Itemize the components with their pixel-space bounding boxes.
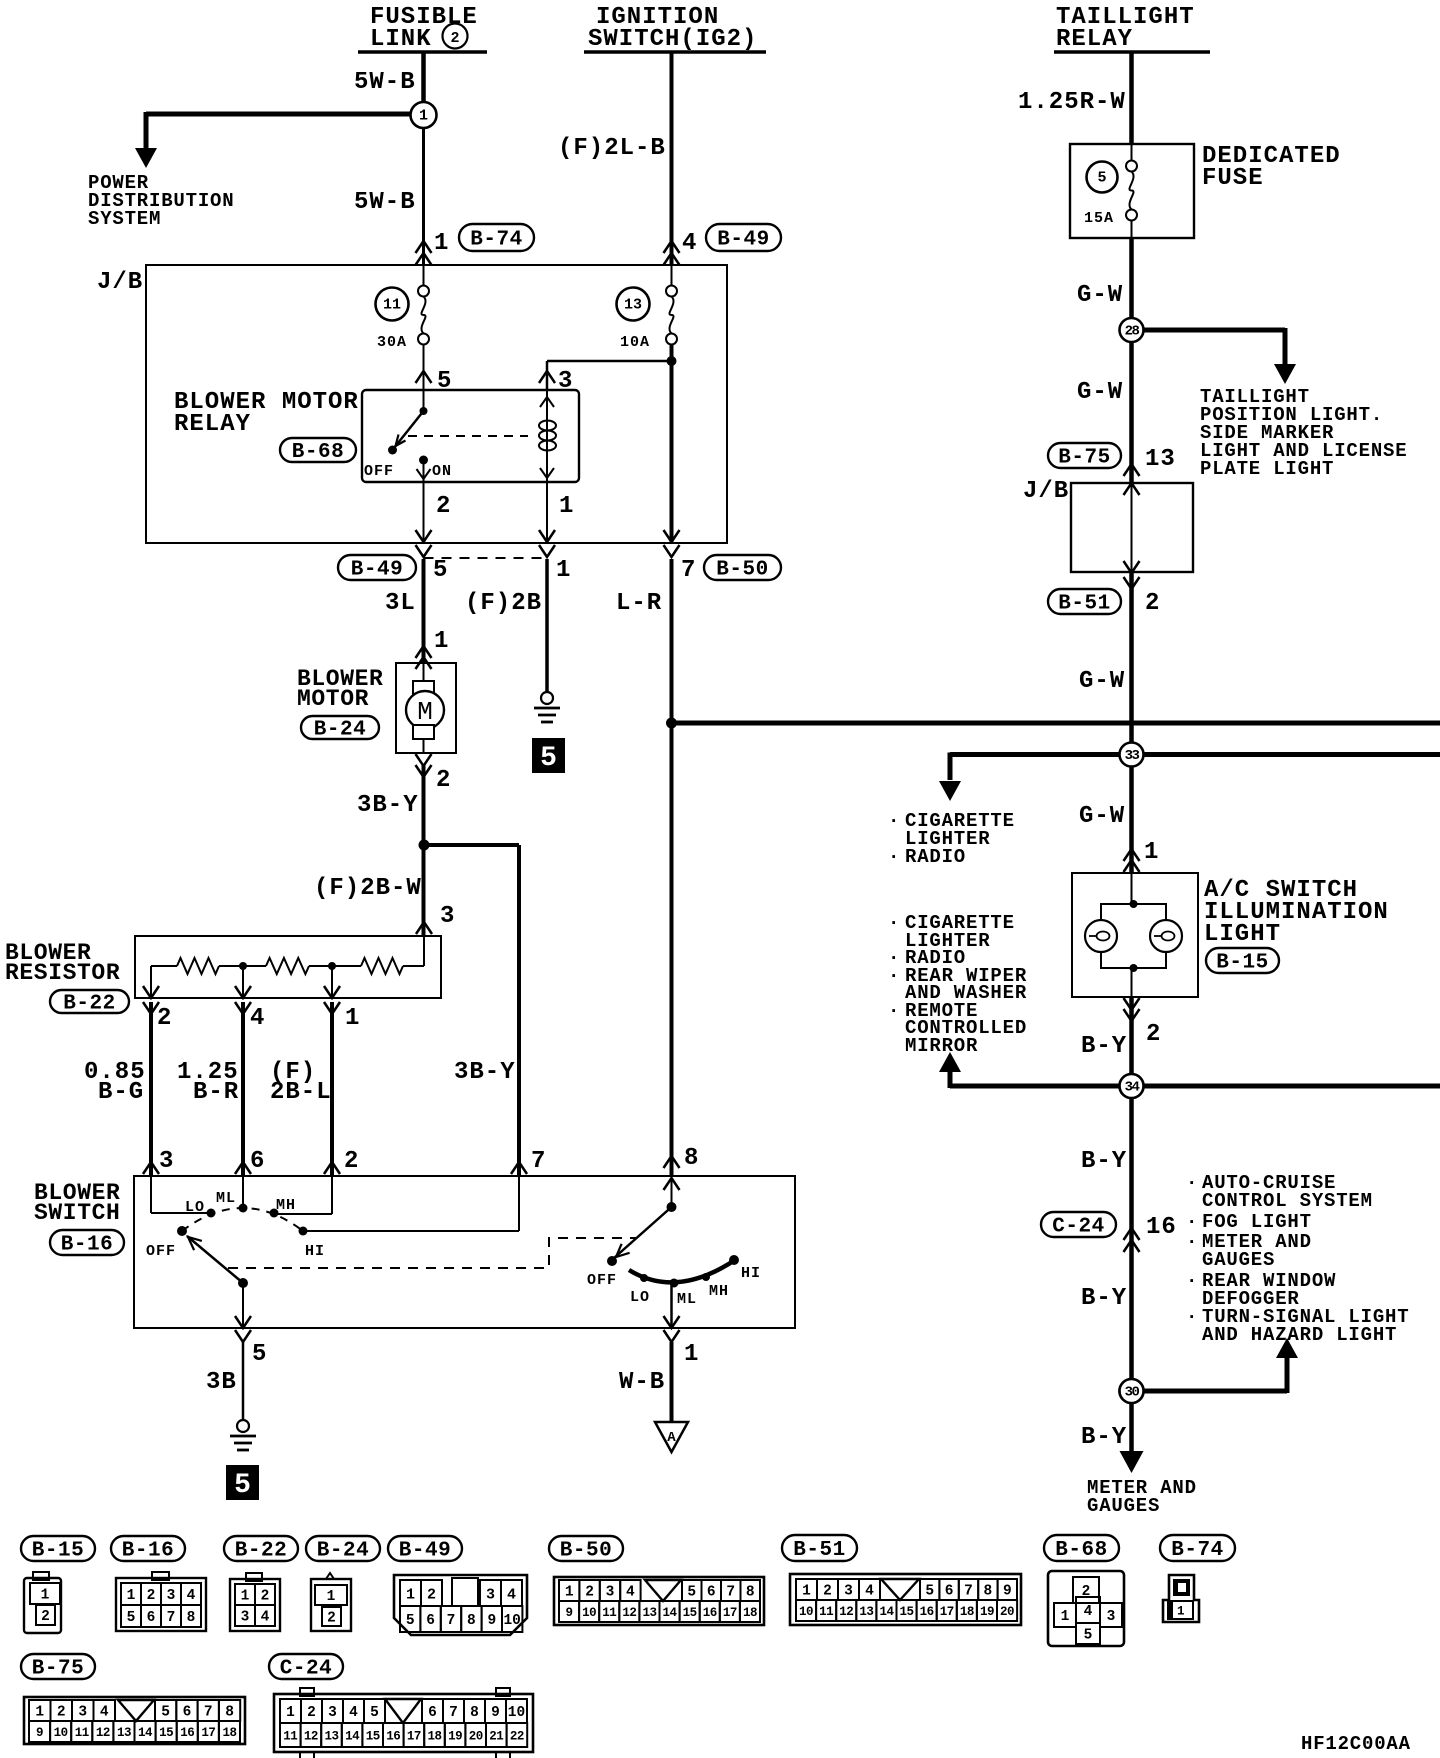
fuse id circle 5 (1087, 162, 1118, 193)
svg-text:B-22: B-22 (235, 1540, 287, 1563)
svg-text:·: · (888, 965, 900, 987)
J/B box outline (146, 265, 727, 543)
svg-text:12: 12 (96, 1726, 110, 1740)
svg-text:3: 3 (1107, 1609, 1116, 1625)
resistor element 3 (361, 958, 403, 974)
relay pin 1 wire (coil) to J/B bottom (546, 482, 548, 543)
svg-text:3: 3 (844, 1584, 853, 1600)
svg-text:W-B: W-B (619, 1369, 665, 1396)
svg-text:3: 3 (78, 1705, 87, 1721)
svg-text:11: 11 (383, 297, 401, 314)
svg-text:B-16: B-16 (122, 1540, 174, 1563)
rail segment (332, 965, 361, 967)
svg-text:17: 17 (723, 1606, 737, 1620)
svg-text:4: 4 (250, 1005, 265, 1032)
wire B-Y from node 34 down to node 30 (1129, 1086, 1134, 1391)
connector bubble B-15 (1206, 948, 1279, 973)
bulb right (1150, 920, 1182, 952)
svg-text:M: M (417, 697, 433, 727)
svg-text:RADIO: RADIO (905, 846, 966, 868)
svg-text:19: 19 (448, 1730, 462, 1744)
svg-text:13: 13 (624, 297, 642, 314)
svg-text:B-51: B-51 (793, 1539, 845, 1562)
svg-text:B-G: B-G (98, 1079, 144, 1106)
wire L-R down to blower switch (670, 559, 674, 1176)
rail segment (243, 965, 266, 967)
svg-text:13: 13 (324, 1730, 338, 1744)
pin entry chevrons (143, 1162, 159, 1174)
svg-text:1: 1 (406, 1586, 415, 1603)
mechanical link dashed line (228, 1238, 637, 1268)
svg-text:11: 11 (602, 1606, 616, 1620)
svg-text:2: 2 (823, 1584, 832, 1600)
svg-text:4: 4 (682, 230, 697, 257)
svg-text:AND HAZARD LIGHT: AND HAZARD LIGHT (1202, 1324, 1397, 1346)
svg-text:MOTOR: MOTOR (297, 686, 369, 712)
wire 1.25B-R down to switch (241, 1002, 245, 1176)
switch exit chevrons (235, 1316, 251, 1328)
svg-text:17: 17 (201, 1726, 215, 1740)
svg-text:2: 2 (436, 767, 451, 794)
connector chevrons B-74 pin 1 (416, 241, 432, 253)
svg-text:HI: HI (741, 1265, 761, 1282)
svg-text:1: 1 (1144, 839, 1159, 866)
connector bubble B-16 (50, 1230, 124, 1255)
svg-text:ML: ML (677, 1291, 697, 1308)
resistor element 1 (177, 958, 219, 974)
svg-text:7: 7 (726, 1585, 735, 1601)
connector bubble B-49 (top) (706, 224, 781, 251)
svg-text:4: 4 (261, 1610, 270, 1626)
svg-text:RELAY: RELAY (174, 411, 251, 438)
svg-text:B-Y: B-Y (1081, 1033, 1127, 1060)
svg-text:B-50: B-50 (560, 1540, 612, 1563)
svg-text:B-Y: B-Y (1081, 1148, 1127, 1175)
svg-text:10: 10 (582, 1606, 596, 1620)
svg-text:2B-L: 2B-L (270, 1079, 332, 1106)
svg-text:30A: 30A (377, 334, 407, 351)
HI contact dot (299, 1227, 308, 1236)
svg-text:5: 5 (370, 1705, 379, 1721)
ground point A triangle (655, 1422, 688, 1452)
connector bubble B-16 (bottom row) (111, 1536, 185, 1561)
svg-text:5: 5 (925, 1584, 934, 1600)
connector B-51 pinout (790, 1574, 1021, 1625)
svg-text:1: 1 (684, 1341, 699, 1368)
svg-text:1: 1 (556, 557, 571, 584)
svg-text:3: 3 (606, 1585, 615, 1601)
bus wire through node 33 (950, 752, 1440, 757)
connector B-74 pinout (1163, 1575, 1199, 1622)
svg-text:7: 7 (531, 1148, 546, 1175)
svg-text:B-68: B-68 (292, 441, 344, 464)
svg-text:(F)2B-W: (F)2B-W (314, 875, 422, 902)
svg-text:·: · (1186, 1172, 1198, 1194)
svg-text:9: 9 (1003, 1584, 1012, 1600)
chassis ground symbol (left) (237, 1420, 249, 1432)
svg-text:9: 9 (36, 1726, 43, 1740)
terminal bar under IGNITION SWITCH (584, 50, 766, 54)
svg-text:2: 2 (57, 1705, 66, 1721)
arrowhead taillight branch (1274, 364, 1296, 384)
svg-text:B-50: B-50 (716, 559, 768, 582)
svg-text:9: 9 (491, 1705, 500, 1721)
svg-text:22: 22 (510, 1730, 524, 1744)
svg-text:SYSTEM: SYSTEM (88, 208, 161, 230)
inner lamp rect (1131, 873, 1133, 904)
svg-text:14: 14 (138, 1726, 153, 1740)
svg-text:3: 3 (440, 903, 455, 930)
connector chevron B-51 (1124, 577, 1140, 589)
svg-text:OFF: OFF (587, 1272, 617, 1289)
svg-text:B-15: B-15 (32, 1540, 84, 1563)
resistor input drop from pin 3 (423, 936, 425, 966)
svg-text:17: 17 (407, 1730, 421, 1744)
svg-text:B-75: B-75 (32, 1658, 84, 1681)
junction block J/B (right) box (1071, 483, 1193, 572)
svg-text:1: 1 (559, 493, 574, 520)
svg-text:·: · (1186, 1231, 1198, 1253)
ground ref black box 5 (middle) (533, 739, 564, 772)
svg-text:G-W: G-W (1079, 668, 1125, 695)
connector bubble B-68 (bottom row) (1044, 1535, 1119, 1561)
left switch arm from pivot to OFF (238, 1278, 248, 1288)
fuse 13 id circle (617, 288, 650, 321)
svg-text:18: 18 (222, 1726, 236, 1740)
svg-text:2: 2 (261, 1589, 270, 1605)
resistor element 2 (266, 958, 309, 974)
relay coil pin 3 chevron and label (539, 371, 555, 383)
svg-text:A: A (667, 1430, 676, 1446)
svg-text:1: 1 (35, 1705, 44, 1721)
svg-text:5: 5 (540, 743, 557, 774)
dedicated fuse symbol (1131, 144, 1133, 161)
connector B-75 pinout (24, 1697, 245, 1744)
dedicated fuse box (1070, 144, 1194, 238)
svg-text:1: 1 (1177, 1605, 1184, 1619)
svg-text:7: 7 (681, 557, 696, 584)
svg-text:LO: LO (630, 1289, 650, 1306)
A/C light box outline (1072, 873, 1198, 997)
svg-text:2: 2 (147, 1588, 156, 1604)
svg-text:HI: HI (305, 1243, 325, 1260)
svg-text:3: 3 (328, 1705, 337, 1721)
connector bubble B-75 (1048, 443, 1121, 468)
switch wiring pin 7 to HI contact (518, 1176, 520, 1231)
svg-text:2: 2 (450, 30, 459, 47)
ML contact dot (239, 1204, 248, 1213)
fuse 11 id circle (376, 288, 409, 321)
svg-text:1.25R-W: 1.25R-W (1018, 89, 1126, 116)
resistor box outline (135, 936, 441, 998)
relay common contact dot (420, 407, 428, 415)
connector chevrons C-24 (1124, 1228, 1140, 1240)
motor terminal top (423, 663, 425, 683)
arrowhead to meter and gauges (1120, 1451, 1144, 1473)
svg-text:B-49: B-49 (399, 1540, 451, 1563)
svg-text:6: 6 (945, 1584, 954, 1600)
motor exit chevrons and pin 2 (416, 754, 432, 766)
svg-text:6: 6 (707, 1585, 716, 1601)
svg-text:5: 5 (1097, 170, 1106, 187)
svg-text:LINK: LINK (370, 26, 432, 53)
svg-text:8: 8 (470, 1705, 479, 1721)
connector bubble B-74 (459, 224, 534, 251)
svg-text:3: 3 (241, 1610, 250, 1626)
svg-text:10A: 10A (620, 334, 650, 351)
svg-text:13: 13 (642, 1606, 656, 1620)
wire W-B to ground point A (670, 1342, 674, 1422)
svg-text:12: 12 (622, 1606, 636, 1620)
svg-text:3B: 3B (206, 1369, 237, 1396)
svg-text:3L: 3L (385, 590, 416, 617)
connector chevron B-75 (1124, 464, 1140, 476)
svg-text:15: 15 (900, 1605, 914, 1619)
svg-text:4: 4 (1084, 1604, 1093, 1620)
relay movable arm (shown OFF) (394, 411, 424, 448)
fuse 11 symbol (423, 265, 425, 286)
svg-text:7: 7 (204, 1705, 213, 1721)
LO contact dot (207, 1209, 216, 1218)
svg-text:7: 7 (447, 1613, 456, 1629)
svg-text:B-15: B-15 (1216, 952, 1268, 975)
svg-text:28: 28 (1125, 324, 1140, 340)
connector bubble B-74 (bottom row) (1160, 1535, 1235, 1561)
connector chevrons B-49 pin 4 (664, 241, 680, 253)
svg-text:6: 6 (250, 1148, 265, 1175)
svg-text:·: · (888, 912, 900, 934)
svg-text:5W-B: 5W-B (354, 69, 416, 96)
svg-text:B-74: B-74 (1171, 1539, 1223, 1562)
wire (F)2L-B from ignition switch down to J/B (670, 52, 674, 264)
connector bubble B-15 (bottom row) (21, 1536, 95, 1561)
svg-text:B-49: B-49 (351, 559, 403, 582)
svg-text:5: 5 (406, 1613, 415, 1629)
svg-text:B-68: B-68 (1055, 1539, 1107, 1562)
relay pin 5 chevron and label (416, 371, 432, 383)
svg-text:4: 4 (187, 1588, 196, 1604)
left switch dashed wiper arc (182, 1208, 303, 1231)
bulb left (1085, 920, 1117, 952)
wire 1.25R-W down to dedicated fuse (1129, 52, 1134, 144)
svg-text:ON: ON (432, 463, 452, 480)
svg-text:MH: MH (276, 1197, 296, 1214)
svg-text:19: 19 (980, 1605, 994, 1619)
connector bubble B-24 (bottom row) (306, 1536, 380, 1561)
wire 3B to ground (242, 1342, 245, 1419)
splice dot 3B-Y (419, 840, 430, 851)
svg-text:J/B: J/B (97, 269, 143, 296)
svg-text:2: 2 (427, 1586, 436, 1603)
left switch output wire to pin 5 (242, 1283, 244, 1328)
node 34 splice circle (1120, 1074, 1144, 1098)
svg-text:1: 1 (241, 1589, 250, 1605)
svg-text:B-Y: B-Y (1081, 1285, 1127, 1312)
svg-text:10: 10 (503, 1613, 520, 1629)
svg-text:1: 1 (434, 628, 449, 655)
svg-text:3: 3 (159, 1148, 174, 1175)
wire branch to power distribution system (146, 112, 412, 117)
svg-text:7: 7 (167, 1610, 176, 1626)
svg-text:33: 33 (1125, 748, 1140, 764)
svg-text:7: 7 (964, 1584, 973, 1600)
svg-text:2: 2 (1145, 590, 1160, 617)
relay: wire from pin 5 to common contact (423, 390, 425, 411)
wire from fuse 11 to blower motor relay pin 5 (423, 345, 425, 391)
svg-text:5: 5 (127, 1610, 136, 1626)
junction dot on L-R wire (666, 718, 677, 729)
svg-text:10: 10 (508, 1705, 525, 1721)
svg-text:B-49: B-49 (717, 229, 769, 252)
bus wire from L-R junction to right edge (672, 721, 1440, 726)
svg-text:3B-Y: 3B-Y (357, 792, 419, 819)
svg-text:B-75: B-75 (1058, 447, 1110, 470)
svg-text:C-24: C-24 (280, 1658, 332, 1681)
node 34 splice circle overdraw (1120, 1074, 1144, 1098)
wire G-W from fuse to node 28 (1129, 238, 1134, 483)
svg-text:5: 5 (234, 1470, 251, 1501)
svg-text:12: 12 (839, 1605, 853, 1619)
svg-text:16: 16 (180, 1726, 194, 1740)
svg-text:B-22: B-22 (63, 993, 115, 1016)
svg-text:·: · (1186, 1211, 1198, 1233)
terminal bar under FUSIBLE LINK (358, 50, 487, 54)
svg-text:LO: LO (185, 1199, 205, 1216)
svg-text:L-R: L-R (616, 590, 662, 617)
svg-text:34: 34 (1125, 1080, 1140, 1096)
branch down-arrow to cigarette lighter/radio (948, 753, 953, 781)
relay contact ON dot (419, 456, 428, 465)
svg-text:B-24: B-24 (317, 1540, 369, 1563)
svg-text:2: 2 (344, 1148, 359, 1175)
svg-text:9: 9 (566, 1606, 573, 1620)
svg-text:2: 2 (307, 1705, 316, 1721)
svg-text:1: 1 (127, 1588, 136, 1604)
svg-text:1: 1 (286, 1705, 295, 1721)
svg-text:11: 11 (75, 1726, 89, 1740)
svg-text:1: 1 (434, 230, 449, 257)
svg-text:OFF: OFF (146, 1243, 176, 1260)
svg-text:B-Y: B-Y (1081, 1424, 1127, 1451)
tap exit chevrons (143, 986, 159, 998)
fuse 13 symbol (671, 265, 673, 286)
svg-text:10: 10 (799, 1605, 813, 1619)
connector B-15 pinout (33, 1572, 49, 1580)
wire (F)2B-W from splice to blower resistor (422, 845, 426, 936)
svg-text:5: 5 (687, 1585, 696, 1601)
svg-text:G-W: G-W (1077, 379, 1123, 406)
wire 3B-Y from motor to splice (422, 765, 426, 845)
right switch OFF contact dot (607, 1256, 617, 1266)
svg-text:8: 8 (984, 1584, 993, 1600)
connector bubble B-75 (second row) (21, 1654, 95, 1679)
connector B-68 pinout (1048, 1571, 1124, 1646)
svg-text:ML: ML (216, 1190, 236, 1207)
svg-text:14: 14 (345, 1730, 360, 1744)
svg-text:6: 6 (428, 1705, 437, 1721)
blower motor box outline (396, 663, 456, 753)
svg-text:B-16: B-16 (61, 1234, 113, 1257)
OFF contact dot (left switch) (177, 1226, 187, 1236)
ground ref black box 5 (left) (227, 1466, 258, 1499)
wire inside A/C light to pin 2 (1131, 968, 1133, 997)
right switch arm to OFF contact (614, 1207, 672, 1258)
svg-text:B-R: B-R (193, 1079, 239, 1106)
wire B-Y from node 30 to meter and gauges (1129, 1391, 1134, 1452)
svg-text:16: 16 (703, 1606, 717, 1620)
svg-text:C-24: C-24 (1052, 1216, 1104, 1239)
connector chevrons below J/B (416, 545, 432, 557)
branch from node 28 to taillight circuits (1142, 328, 1285, 333)
svg-text:4: 4 (626, 1585, 635, 1601)
svg-text:HF12C00AA: HF12C00AA (1301, 1733, 1411, 1755)
svg-text:6: 6 (147, 1610, 156, 1626)
svg-text:2: 2 (157, 1005, 172, 1032)
svg-text:14: 14 (879, 1605, 894, 1619)
connector B-22 pinout (246, 1573, 262, 1581)
terminal bar under TAILLIGHT RELAY (1054, 50, 1210, 54)
svg-text:SWITCH: SWITCH (34, 1200, 120, 1226)
connector bubble B-50 (middle) (704, 555, 781, 580)
connector bubble B-51 (bottom row) (782, 1535, 857, 1561)
connector bubble C-24 (1041, 1212, 1116, 1237)
node 28 splice circle (1120, 318, 1144, 342)
svg-text:CONTROL SYSTEM: CONTROL SYSTEM (1202, 1190, 1373, 1212)
svg-text:5: 5 (433, 557, 448, 584)
svg-text:OFF: OFF (364, 463, 394, 480)
svg-text:GAUGES: GAUGES (1202, 1249, 1275, 1271)
wire 3L down to blower motor (422, 559, 426, 663)
connector bubble B-49 (bottom row) (388, 1536, 462, 1561)
svg-text:15: 15 (366, 1730, 380, 1744)
svg-text:1: 1 (802, 1584, 811, 1600)
svg-text:·: · (888, 1000, 900, 1022)
svg-text:2: 2 (327, 1611, 336, 1627)
svg-text:3: 3 (167, 1588, 176, 1604)
svg-text:17: 17 (940, 1605, 954, 1619)
svg-text:G-W: G-W (1077, 282, 1123, 309)
svg-text:8: 8 (746, 1585, 755, 1601)
svg-text:MIRROR: MIRROR (905, 1035, 978, 1057)
svg-text:5W-B: 5W-B (354, 189, 416, 216)
wire from ignition feed junction to relay coil pin 3 (547, 360, 672, 363)
svg-text:G-W: G-W (1079, 803, 1125, 830)
relay actuation dashed link (408, 435, 528, 437)
svg-text:RESISTOR: RESISTOR (5, 960, 120, 986)
svg-text:13: 13 (117, 1726, 131, 1740)
connector bubble B-24 (301, 716, 379, 739)
node 33 splice circle (1120, 743, 1144, 767)
svg-text:·: · (888, 846, 900, 868)
branch up-arrow to accessory list (948, 1062, 953, 1088)
wire (F)2B down to ground (545, 559, 549, 691)
svg-text:4: 4 (349, 1705, 358, 1721)
connector bubble B-49 (middle) (338, 555, 416, 580)
svg-text:14: 14 (663, 1606, 678, 1620)
arrowhead to power distribution system (135, 148, 157, 168)
svg-text:SWITCH(IG2): SWITCH(IG2) (588, 26, 757, 53)
svg-text:·: · (1186, 1306, 1198, 1328)
svg-text:2: 2 (436, 493, 451, 520)
connector B-49 pinout (394, 1575, 527, 1635)
svg-text:1: 1 (565, 1585, 574, 1601)
svg-text:18: 18 (960, 1605, 974, 1619)
connector B-50 pinout (554, 1577, 764, 1625)
svg-text:30: 30 (1125, 1385, 1140, 1401)
tap dot pin 1 (328, 962, 336, 970)
svg-text:8: 8 (467, 1613, 476, 1629)
node 1 splice circle (411, 102, 437, 128)
